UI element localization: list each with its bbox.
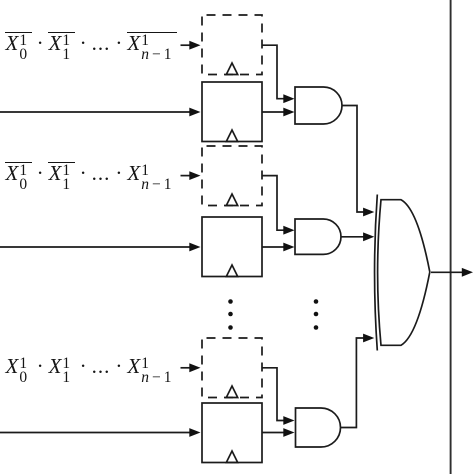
delay element D2 (dashed box row 2) <box>202 146 262 206</box>
clock triangle of FF2 <box>226 265 237 277</box>
arrowhead: U2 wire into U4 <box>363 232 374 241</box>
clock triangle of FF1 <box>226 130 237 142</box>
label L2 (minterm first terms complemented, last plain) <box>6 161 176 190</box>
AND gate U2 <box>295 219 341 254</box>
wire: U3 output to U4 input 3 <box>341 338 366 428</box>
wire: U4 output across rail <box>431 271 464 273</box>
arrowhead: L3 into D3 <box>189 363 200 372</box>
arrowhead: FF2 wire into U2 <box>283 243 294 252</box>
wire: label L3 arrow shaft <box>181 367 192 369</box>
OR gate U4 outer input arc <box>375 195 378 351</box>
AND gate U1 <box>295 87 342 124</box>
bus line (right vertical rail) <box>450 0 452 474</box>
arrowhead: L2 into D2 <box>189 171 200 180</box>
wire: U2 output to U4 input 2 <box>341 236 365 238</box>
clock triangle of D1 <box>226 63 237 75</box>
wire: input row 2 to FF2 <box>0 246 191 248</box>
wire: label L2 arrow shaft <box>181 175 192 177</box>
arrowhead: input into FF3 <box>189 428 200 437</box>
clock triangle of FF3 <box>226 451 237 463</box>
arrowhead: L1 into D1 <box>189 41 200 50</box>
delay element D3 (dashed box row 3) <box>202 338 262 398</box>
label L1 (minterm all-complemented X0..Xn-1) <box>6 31 176 60</box>
arrowhead: input into FF2 <box>189 243 200 252</box>
wire: FF3 output to U3 bottom input <box>262 432 286 434</box>
wire: FF2 output to U2 bottom input <box>262 246 286 248</box>
arrowhead: FF1 wire into U1 <box>283 108 294 117</box>
arrowhead: D2 wire into U2 <box>283 226 294 235</box>
arrowhead: D3 wire into U3 <box>283 416 294 425</box>
label L3 (minterm all plain) <box>6 354 176 383</box>
arrowhead: FF3 wire into U3 <box>283 428 294 437</box>
wire: D3 output to U3 top input <box>262 368 286 421</box>
arrowhead: U1 wire into U4 <box>363 208 374 217</box>
AND gate U3 <box>296 408 341 447</box>
wire: input row 3 to FF3 <box>0 432 191 434</box>
flip-flop FF3 (solid box row 3) <box>202 403 262 463</box>
wire: FF1 output to U1 bottom input <box>262 111 286 113</box>
wire: D2 output to U2 top input <box>262 176 286 231</box>
clock triangle of D2 <box>226 194 237 206</box>
delay element D1 (dashed box row 1) <box>202 15 262 75</box>
flip-flop FF1 (solid box row 1) <box>202 82 262 142</box>
OR gate U4 body <box>378 200 430 346</box>
clock triangle of D3 <box>226 386 237 398</box>
wire: label L1 arrow shaft <box>181 44 192 46</box>
flip-flop FF2 (solid box row 2) <box>202 217 262 277</box>
ellipsis dots right column <box>314 299 319 304</box>
wire: D1 output to U1 top input <box>262 45 286 98</box>
ellipsis dots left column <box>228 299 233 304</box>
arrowhead: input into FF1 <box>189 108 200 117</box>
arrowhead: U4 output <box>462 268 473 277</box>
wire: U1 output to U4 input 1 <box>342 106 365 213</box>
arrowhead: U3 wire into U4 <box>363 334 374 343</box>
arrowhead: D1 wire into U1 <box>283 94 294 103</box>
wire: input row 1 to FF1 <box>0 111 191 113</box>
